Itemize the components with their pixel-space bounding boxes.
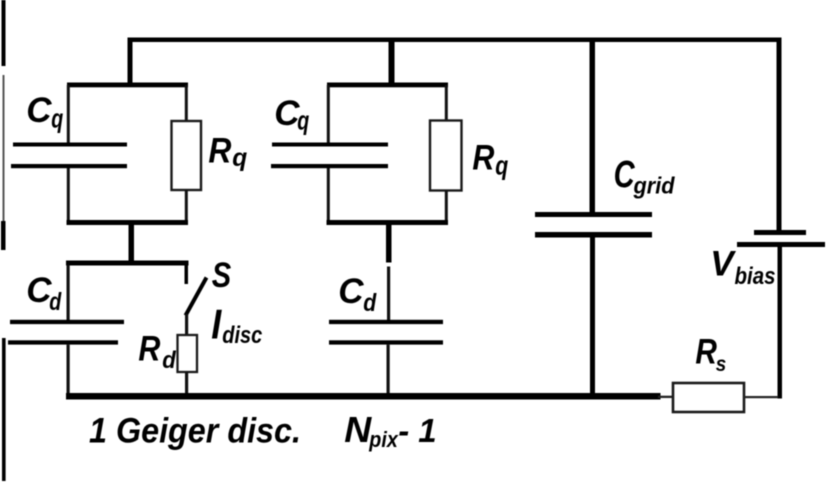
wire top rail of Cd/Rd section bbox=[66, 261, 189, 266]
svg-text:q: q bbox=[232, 144, 247, 172]
wire from bus down to Cgrid bbox=[590, 38, 596, 214]
wire left leg below Cq 2 bbox=[327, 168, 330, 221]
svg-text:q: q bbox=[51, 104, 63, 134]
svg-text:N: N bbox=[344, 409, 372, 450]
svg-text:R: R bbox=[208, 131, 232, 170]
svg-text:bias: bias bbox=[735, 263, 776, 290]
svg-text:C: C bbox=[614, 154, 635, 196]
wire bottom rail of Cq/Rq block 1 bbox=[67, 220, 189, 225]
wire stem from bus to Npix-1 quench block bbox=[389, 38, 395, 88]
resistor Rd bbox=[178, 335, 198, 372]
wire right leg to Rq 2 bbox=[445, 85, 448, 121]
svg-text:C: C bbox=[338, 272, 364, 311]
capacitor Cgrid bbox=[535, 212, 652, 396]
wire right leg below Rq 2 bbox=[445, 191, 448, 222]
wire thick stem down from block 2 bbox=[386, 225, 392, 263]
wire left leg to Cq 2 bbox=[327, 85, 330, 144]
wire left leg below Cq 1 bbox=[67, 168, 70, 221]
wire bottom rail of Cq/Rq block 2 bbox=[327, 220, 449, 225]
wire battery to Rs bbox=[778, 247, 783, 399]
svg-text:1: 1 bbox=[418, 412, 436, 449]
svg-text:R: R bbox=[138, 329, 161, 368]
svg-text:q: q bbox=[495, 151, 508, 181]
wire right leg to Rq 1 bbox=[185, 85, 188, 122]
svg-text:-: - bbox=[398, 412, 409, 449]
wire top bus node bbox=[128, 38, 782, 43]
capacitor Cq 2 bbox=[271, 143, 388, 169]
wire thin lead to Cd 2 bbox=[387, 267, 390, 321]
wire left leg to Cd 1 bbox=[67, 265, 70, 320]
wire left leg to Cq 1 bbox=[67, 85, 70, 144]
svg-text:R: R bbox=[695, 332, 717, 371]
svg-text:d: d bbox=[49, 288, 62, 316]
resistor Rq 2 bbox=[430, 121, 462, 191]
switch S blade bbox=[186, 278, 207, 316]
svg-text:1 Geiger disc.: 1 Geiger disc. bbox=[89, 412, 301, 451]
wire right leg below Rq 1 bbox=[185, 190, 188, 221]
wire Cd 2 to bottom bus bbox=[387, 345, 390, 394]
wire bus to Rs bbox=[658, 396, 674, 398]
wire from bus down to Vbias battery bbox=[777, 38, 782, 232]
wire Rd to bottom bus bbox=[185, 372, 188, 394]
node top of pixel-1 parallel RC bbox=[11, 83, 201, 263]
svg-text:S: S bbox=[212, 256, 231, 295]
svg-text:R: R bbox=[472, 138, 495, 177]
node top of Npix-1 parallel RC bbox=[271, 83, 462, 395]
wire stub to switch S bbox=[185, 265, 189, 284]
wire bottom bus node bbox=[66, 393, 661, 400]
wire Rs to battery branch bbox=[744, 396, 778, 398]
wire switch to Rd bbox=[185, 314, 188, 336]
svg-text:pix: pix bbox=[368, 427, 398, 452]
wire stem from bus to pixel 1 quench block bbox=[128, 38, 133, 88]
svg-text:grid: grid bbox=[633, 172, 676, 198]
wire top rail of Cq/Rq block 1 bbox=[67, 83, 188, 88]
resistor Rs bbox=[673, 383, 744, 412]
wire Cgrid to bottom bus bbox=[590, 238, 595, 397]
capacitor Cd 1 bbox=[8, 320, 124, 345]
capacitor Cd 2 bbox=[329, 320, 443, 345]
battery Vbias bbox=[737, 230, 825, 399]
capacitor Cq 1 bbox=[11, 143, 127, 169]
svg-text:d: d bbox=[363, 289, 377, 317]
svg-text:q: q bbox=[297, 106, 309, 136]
wire top rail of Cq/Rq block 2 bbox=[327, 83, 448, 88]
node top of diode section 1 bbox=[8, 261, 207, 395]
wire stem down to diode section 1 bbox=[129, 225, 135, 262]
svg-text:disc: disc bbox=[222, 322, 262, 349]
svg-text:I: I bbox=[211, 300, 222, 347]
wire left leg below Cd 1 bbox=[67, 345, 70, 394]
svg-text:C: C bbox=[26, 91, 52, 130]
svg-text:s: s bbox=[716, 352, 727, 376]
svg-text:V: V bbox=[710, 244, 736, 283]
resistor Rq 1 bbox=[172, 121, 202, 190]
svg-text:d: d bbox=[162, 347, 177, 374]
